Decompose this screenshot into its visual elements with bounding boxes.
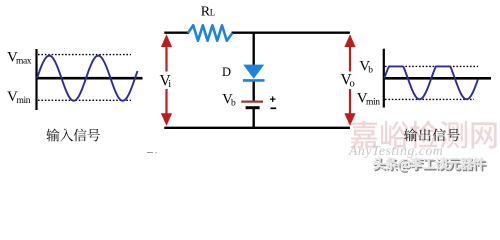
- svg-text:b: b: [231, 98, 236, 108]
- svg-text:AnyTesting.com: AnyTesting.com: [348, 143, 443, 158]
- svg-text:+: +: [270, 94, 276, 106]
- svg-text:L: L: [210, 8, 216, 18]
- svg-text:min: min: [17, 96, 31, 106]
- svg-text:max: max: [16, 57, 32, 67]
- svg-text:b: b: [368, 65, 373, 75]
- svg-text:D: D: [222, 65, 231, 79]
- svg-text:o: o: [350, 78, 355, 89]
- svg-text:min: min: [366, 97, 380, 107]
- svg-text:i: i: [168, 79, 171, 90]
